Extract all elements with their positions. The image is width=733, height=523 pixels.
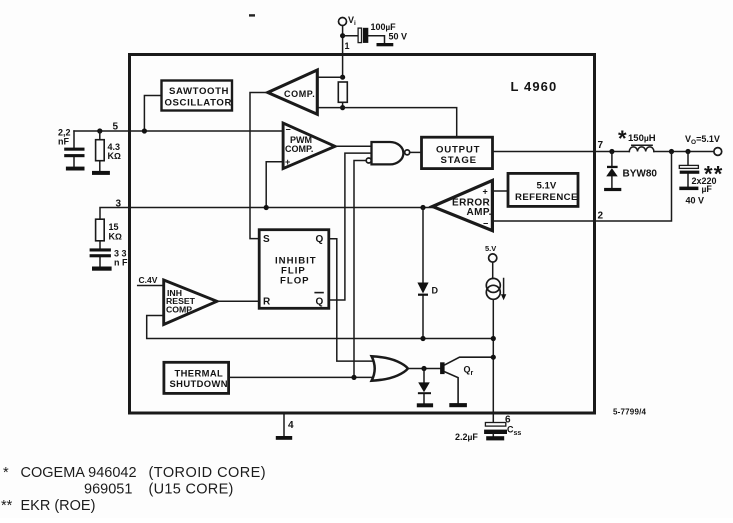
annotation line 3 — [1, 498, 95, 514]
svg-text:+: + — [483, 187, 488, 197]
annotation line 2 — [84, 482, 234, 498]
svg-text:n F: n F — [114, 258, 128, 268]
pin label 3 — [116, 199, 122, 210]
op-amp ERROR AMP — [433, 180, 493, 230]
node feedback tap — [669, 149, 674, 154]
svg-text:D: D — [432, 286, 439, 296]
ground Css — [486, 436, 504, 440]
svg-text:COGEMA 946042: COGEMA 946042 — [21, 465, 137, 481]
block 5.1V reference — [508, 173, 578, 206]
svg-text:KΩ: KΩ — [109, 231, 123, 241]
wire NAND mid input from Q-bar — [329, 153, 372, 300]
svg-text:(U15 CORE): (U15 CORE) — [149, 482, 234, 498]
wire inh comp output to R — [217, 300, 259, 302]
svg-text:5-7799/4: 5-7799/4 — [613, 408, 647, 417]
node Qr collector — [491, 355, 496, 360]
gate OR — [372, 356, 408, 380]
node BYW80 — [609, 149, 614, 154]
ground 4.3K — [92, 171, 110, 175]
wire NAND bubble input — [354, 161, 366, 378]
terminal Vo — [685, 134, 722, 155]
svg-text:4: 4 — [288, 420, 294, 431]
ground C1 — [377, 43, 394, 46]
svg-text:L 4960: L 4960 — [511, 79, 558, 94]
ground output cap — [679, 187, 698, 191]
wire Vi to C1 — [343, 35, 358, 37]
wire pin 5 rail — [74, 130, 283, 132]
wire Q to OR gate — [329, 239, 373, 361]
ground base diode — [417, 403, 433, 407]
wire pin 7 output rail — [493, 151, 714, 153]
wire COMP input top — [317, 76, 342, 78]
current source — [486, 278, 506, 300]
svg-text:µF: µF — [702, 184, 713, 194]
resistor divider (COMP input) — [338, 82, 347, 102]
wire Vi vertical to pin 1 and resistor top — [342, 26, 344, 108]
node pin5 sawtooth — [142, 128, 147, 133]
svg-text:−: − — [483, 219, 488, 229]
svg-text:COMP: COMP — [166, 304, 192, 314]
ground Qr emitter — [449, 403, 467, 407]
svg-text:Vi: Vi — [348, 15, 356, 27]
svg-text:R: R — [263, 297, 271, 308]
ground BYW80 — [604, 188, 621, 191]
svg-text:−: − — [286, 125, 291, 135]
wire current source to pin 6 — [492, 299, 494, 422]
svg-text:**: ** — [1, 498, 13, 514]
diode D — [417, 208, 438, 339]
svg-text:C.4V: C.4V — [139, 275, 158, 285]
block sawtooth oscillator — [162, 81, 233, 111]
capacitor 100uF input — [358, 22, 407, 43]
wire error amp + to reference — [492, 190, 508, 192]
svg-text:(TOROID CORE): (TOROID CORE) — [149, 465, 267, 481]
wire pin 2 feedback — [492, 152, 671, 222]
wire 5V to current source — [492, 262, 494, 278]
svg-text:2.2µF: 2.2µF — [455, 432, 478, 442]
node soft-start rail / pin6 — [491, 336, 496, 341]
node diode D bottom — [420, 336, 425, 341]
wire pin 3 feedback rail — [100, 208, 433, 267]
scan artifact dash — [249, 14, 255, 16]
resistor 4.3K — [96, 131, 121, 171]
svg-text:*: * — [3, 465, 9, 481]
wire OR output to Qr base — [408, 368, 440, 370]
wire inh comp bottom input and soft-start rail — [147, 316, 494, 339]
block inhibit flip flop — [259, 230, 329, 309]
wire thermal shutdown to OR gate — [229, 376, 374, 378]
svg-text:FLOP: FLOP — [280, 275, 310, 286]
capacitor 33nF — [90, 248, 128, 267]
svg-text:150µH: 150µH — [628, 133, 656, 144]
capacitor Css 2.2uF — [455, 423, 521, 443]
pin 4 ground lead — [284, 414, 294, 436]
wire PWM+ to feedback rail — [266, 162, 283, 208]
node pin5 ext — [97, 128, 102, 133]
inductor 150uH — [618, 126, 656, 152]
wire COMP output to flip-flop S — [250, 93, 268, 239]
svg-text:100µF: 100µF — [371, 22, 397, 32]
svg-text:Q: Q — [316, 297, 324, 308]
svg-text:COMP.: COMP. — [285, 144, 313, 154]
ground 33nF — [92, 267, 112, 271]
wire PWM output to NAND — [335, 145, 372, 147]
svg-text:969051: 969051 — [84, 482, 132, 498]
node Qr base / diode — [421, 366, 426, 371]
svg-text:Css: Css — [507, 425, 521, 438]
svg-text:OSCILLATOR: OSCILLATOR — [165, 98, 232, 109]
wire C1 to ground — [368, 36, 384, 43]
svg-text:STAGE: STAGE — [441, 155, 477, 166]
label 5-7799/4 — [613, 408, 647, 417]
op-amp COMP — [268, 70, 318, 114]
node diode D top — [420, 205, 425, 210]
label L4960 — [511, 79, 558, 94]
resistor 15K — [96, 219, 122, 241]
svg-text:*: * — [618, 126, 627, 151]
transistor Qr — [440, 357, 493, 403]
svg-text:S: S — [263, 234, 270, 245]
svg-text:40 V: 40 V — [686, 196, 705, 206]
label C.4V — [139, 275, 158, 285]
pin label 1 — [345, 41, 350, 51]
capacitor 2x220uF output — [679, 152, 723, 206]
svg-text:5.1V: 5.1V — [537, 181, 557, 192]
svg-text:7: 7 — [598, 140, 604, 151]
node resistor bottom — [340, 105, 345, 110]
svg-text:Qr: Qr — [464, 365, 474, 378]
IC body L4960 main box — [130, 55, 595, 414]
svg-text:KΩ: KΩ — [108, 151, 122, 161]
node Vi junction — [340, 33, 345, 38]
pin label 6 — [505, 415, 511, 426]
pin label 2 — [598, 211, 604, 222]
block output stage — [422, 137, 493, 168]
svg-text:Q: Q — [316, 234, 324, 245]
svg-text:nF: nF — [58, 137, 69, 147]
node thermal/NAND tap — [351, 375, 356, 380]
terminal Vi — [339, 15, 357, 27]
svg-text:VO=5.1V: VO=5.1V — [685, 134, 720, 146]
svg-text:REFERENCE: REFERENCE — [515, 192, 578, 203]
svg-text:AMP.: AMP. — [467, 207, 492, 218]
svg-text:2: 2 — [598, 211, 604, 222]
svg-text:1: 1 — [345, 41, 350, 51]
op-amp PWM COMP — [283, 123, 335, 169]
svg-text:+: + — [285, 157, 290, 167]
node resistor top — [340, 75, 345, 80]
svg-text:SAWTOOTH: SAWTOOTH — [169, 86, 229, 97]
wire resistor node to output stage top — [343, 108, 457, 138]
ground pin 4 — [276, 436, 292, 440]
block thermal shutdown — [164, 362, 229, 393]
svg-text:BYW80: BYW80 — [623, 169, 658, 180]
wire inh comp top input — [138, 285, 164, 287]
diode BYW80 — [606, 152, 657, 188]
gate NAND — [366, 142, 410, 164]
diode at Qr base — [418, 369, 431, 404]
node PWM+ junction — [264, 205, 269, 210]
capacitor 2.2nF — [58, 128, 85, 167]
wire NAND output — [410, 151, 422, 153]
node output cap tap — [685, 149, 690, 154]
svg-text:50 V: 50 V — [389, 32, 408, 42]
ground 2.2nF — [66, 167, 85, 171]
svg-text:COMP.: COMP. — [284, 89, 315, 99]
wire sawtooth to pin5 node — [144, 96, 161, 132]
terminal 5V — [485, 244, 497, 262]
op-amp INH RESET COMP — [164, 280, 217, 325]
wire COMP input bottom — [317, 107, 342, 109]
annotation line 1 — [3, 465, 266, 481]
svg-text:5.V: 5.V — [485, 244, 496, 253]
svg-text:OUTPUT: OUTPUT — [436, 145, 480, 156]
pin label 7 — [598, 140, 604, 151]
svg-text:EKR (ROE): EKR (ROE) — [21, 498, 96, 514]
svg-text:SHUTDOWN: SHUTDOWN — [170, 378, 228, 389]
pin label 5 — [113, 122, 119, 133]
